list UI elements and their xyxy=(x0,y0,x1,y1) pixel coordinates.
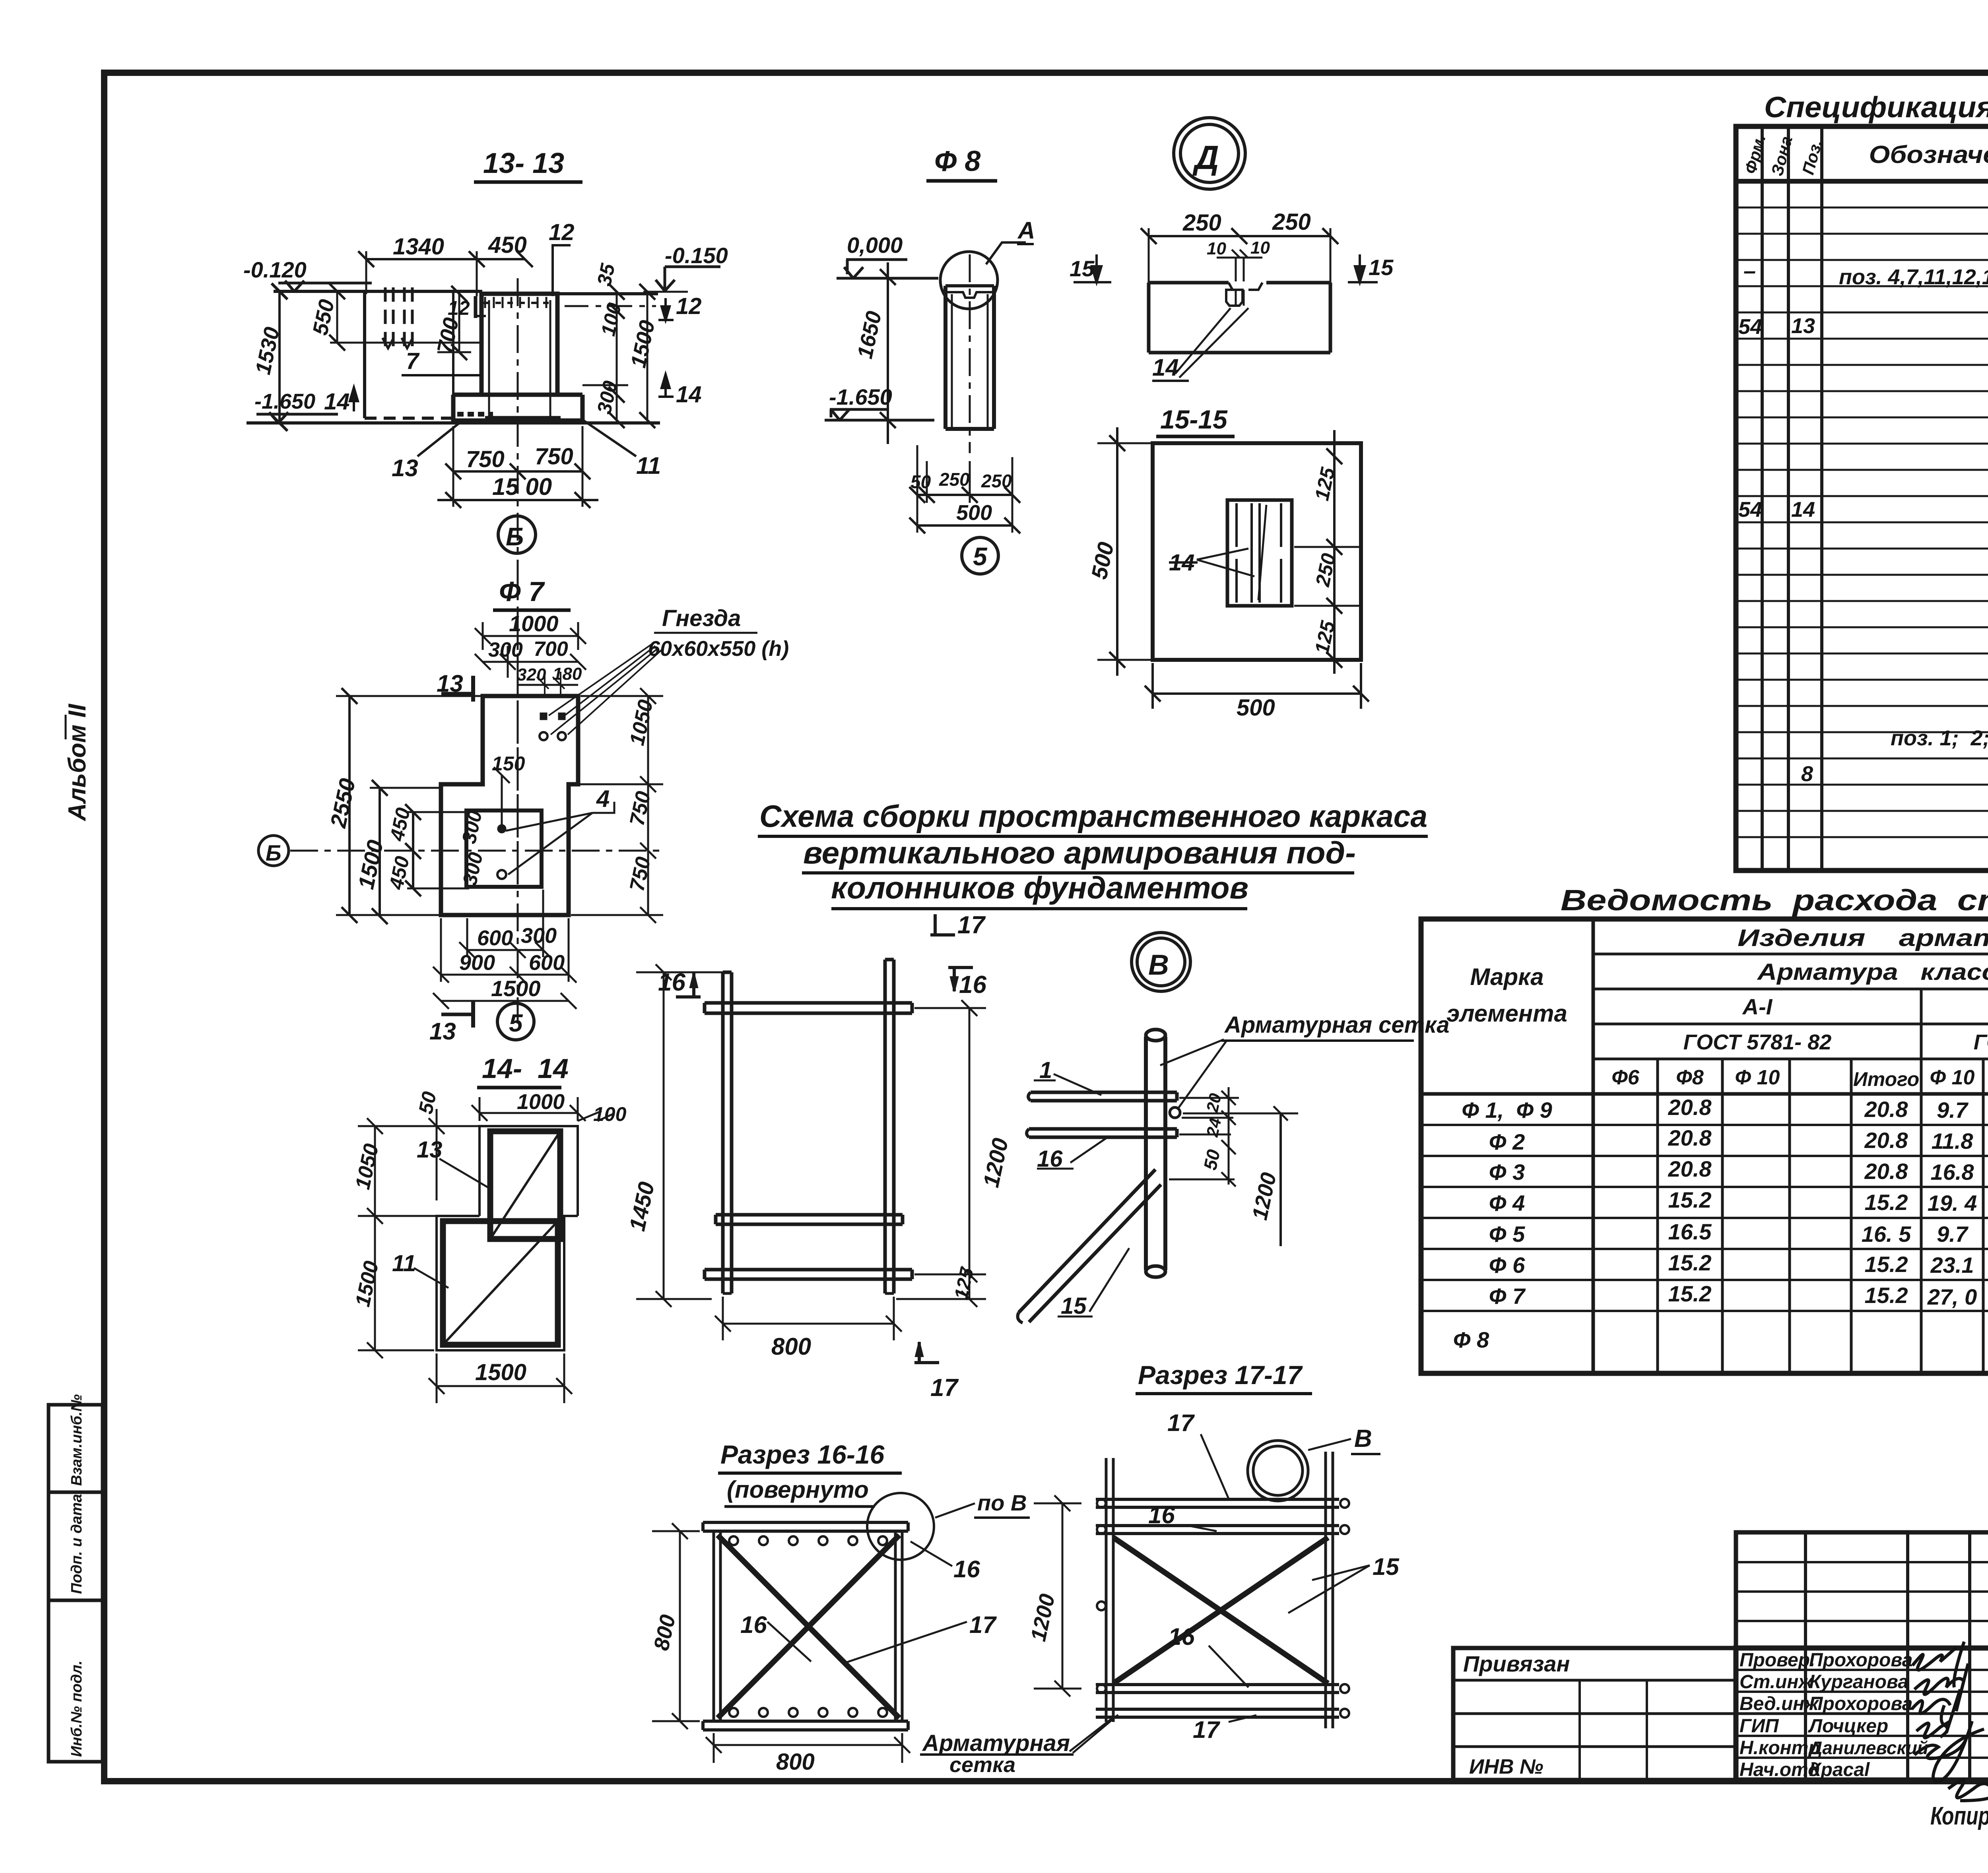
svg-text:16: 16 xyxy=(959,971,986,999)
horizontal rebar 1 xyxy=(1031,1092,1177,1101)
svg-text:А: А xyxy=(1017,217,1035,244)
svg-text:Арматура класса: Арматура класса xyxy=(1757,959,1988,985)
svg-text:поз. 4,7,11,12,15,16,17 см. Ф7: поз. 4,7,11,12,15,16,17 см. Ф7 xyxy=(1839,265,1988,289)
vertical rebar xyxy=(1146,1037,1165,1270)
inner pocket xyxy=(466,810,542,887)
top dim line 1340/450 xyxy=(366,258,525,260)
svg-text:16: 16 xyxy=(953,1556,980,1582)
svg-text:54: 54 xyxy=(1738,315,1762,339)
leaders 1 / 16 / 15 xyxy=(1054,1074,1129,1312)
svg-text:–: – xyxy=(1743,258,1756,283)
elevation mark -0.120 xyxy=(278,281,372,291)
svg-text:17: 17 xyxy=(930,1374,959,1402)
-0.150 elevation xyxy=(656,267,720,291)
svg-text:Разрез 16-16: Разрез 16-16 xyxy=(720,1440,885,1469)
svg-text:16: 16 xyxy=(1148,1502,1175,1528)
left margin stamp strip xyxy=(49,1405,103,1762)
svg-text:Гнезда: Гнезда xyxy=(662,605,741,631)
svg-text:Ф 10: Ф 10 xyxy=(1930,1066,1975,1089)
bottom dim 800 xyxy=(723,1323,894,1325)
svg-text:20.8: 20.8 xyxy=(1864,1128,1908,1153)
svg-text:Ф8: Ф8 xyxy=(1676,1066,1704,1089)
vertical side bars xyxy=(1106,1458,1113,1722)
svg-text:50: 50 xyxy=(911,471,931,492)
svg-text:12: 12 xyxy=(448,297,470,319)
svg-text:17: 17 xyxy=(969,1611,997,1638)
svg-text:16: 16 xyxy=(1037,1146,1063,1172)
svg-text:13: 13 xyxy=(429,1018,456,1045)
po V circle xyxy=(867,1493,934,1560)
diagonal rebar xyxy=(1019,1169,1161,1322)
svg-text:1200: 1200 xyxy=(1248,1171,1281,1222)
svg-text:Прохорова: Прохорова xyxy=(1809,1650,1912,1671)
svg-text:15: 15 xyxy=(1373,1553,1400,1580)
top anchor notch xyxy=(945,292,994,298)
node B circle xyxy=(1132,933,1190,991)
svg-text:750: 750 xyxy=(625,855,655,893)
svg-text:9.7: 9.7 xyxy=(1937,1097,1969,1123)
axis xyxy=(969,254,971,453)
svg-text:Ф 2: Ф 2 xyxy=(1489,1129,1525,1154)
svg-text:5: 5 xyxy=(509,1010,523,1037)
svg-text:900: 900 xyxy=(459,951,495,975)
svg-text:ГОСТ 5781- 82: ГОСТ 5781- 82 xyxy=(1974,1030,1988,1054)
svg-text:27, 0: 27, 0 xyxy=(1927,1284,1977,1309)
bottom dims 750 750 xyxy=(453,470,582,473)
svg-text:15: 15 xyxy=(1061,1293,1087,1319)
svg-text:450: 450 xyxy=(386,806,414,843)
middle rung xyxy=(716,1215,903,1224)
X diagonals xyxy=(1113,1538,1328,1683)
svg-text:1500: 1500 xyxy=(491,976,541,1001)
svg-text:180: 180 xyxy=(553,664,582,684)
svg-text:Ведомость расхода стали на: Ведомость расхода стали на элемент, кг. xyxy=(1561,884,1988,917)
svg-text:10: 10 xyxy=(1207,239,1226,258)
vertical lines xyxy=(1592,919,1595,1373)
svg-text:13: 13 xyxy=(392,455,418,481)
svg-text:вертикального армирования под-: вертикального армирования под- xyxy=(803,835,1356,870)
bottom dim 500 xyxy=(1153,692,1361,695)
markers 17/16 top-right xyxy=(930,914,955,935)
leader 11 xyxy=(584,421,636,456)
svg-text:1000: 1000 xyxy=(509,611,559,636)
lower thick box xyxy=(443,1221,558,1345)
svg-text:-0.120: -0.120 xyxy=(243,257,307,282)
svg-text:элемента: элемента xyxy=(1446,1000,1567,1027)
top dims xyxy=(483,635,578,637)
svg-text:14: 14 xyxy=(324,389,350,415)
bottom plate xyxy=(703,1721,908,1730)
dim 150 with dot xyxy=(501,775,503,829)
svg-text:50: 50 xyxy=(414,1090,441,1116)
svg-text:100: 100 xyxy=(593,1103,627,1125)
svg-text:ГОСТ 5781- 82: ГОСТ 5781- 82 xyxy=(1683,1030,1832,1054)
right dim chain xyxy=(1333,430,1336,674)
svg-text:Изделия арматурные: Изделия арматурные xyxy=(1738,925,1988,951)
svg-text:1050: 1050 xyxy=(625,698,658,747)
svg-text:Привязан: Привязан xyxy=(1463,1651,1570,1676)
svg-text:Фрм.: Фрм. xyxy=(1741,132,1769,176)
svg-text:15.2: 15.2 xyxy=(1865,1283,1908,1308)
top rung xyxy=(705,1003,912,1013)
outer slab square xyxy=(1153,443,1361,660)
left dim 500 xyxy=(1116,443,1118,660)
circle B left + circle 5 bottom xyxy=(258,836,289,866)
svg-text:800: 800 xyxy=(771,1333,811,1360)
svg-text:Подп. и дата: Подп. и дата xyxy=(68,1494,85,1594)
svg-text:300: 300 xyxy=(488,638,523,661)
svg-text:300: 300 xyxy=(521,924,557,948)
svg-text:700: 700 xyxy=(534,638,568,661)
side bars xyxy=(714,1531,720,1721)
bottom rung xyxy=(705,1270,912,1279)
svg-text:14: 14 xyxy=(676,382,702,407)
svg-text:15.2: 15.2 xyxy=(1865,1252,1908,1277)
leaders 13 / 11 xyxy=(414,1159,490,1288)
svg-text:12: 12 xyxy=(676,293,702,319)
svg-text:В: В xyxy=(1354,1425,1372,1452)
svg-text:20.8: 20.8 xyxy=(1864,1097,1908,1122)
svg-text:Арматурная: Арматурная xyxy=(922,1730,1070,1756)
svg-text:800: 800 xyxy=(649,1613,680,1653)
svg-text:14: 14 xyxy=(1169,550,1195,576)
vertical bars xyxy=(723,972,732,1293)
svg-text:1500: 1500 xyxy=(626,318,660,370)
svg-text:11: 11 xyxy=(392,1251,416,1276)
svg-text:16.5: 16.5 xyxy=(1668,1219,1712,1244)
column body xyxy=(944,286,947,429)
circle A detail xyxy=(940,252,998,309)
circle B axis xyxy=(498,516,536,553)
svg-text:Ф 7: Ф 7 xyxy=(1489,1284,1526,1309)
svg-text:500: 500 xyxy=(1237,695,1275,721)
svg-text:35: 35 xyxy=(593,261,619,288)
marker 17 bottom xyxy=(914,1342,939,1363)
svg-text:Ф 5: Ф 5 xyxy=(1489,1222,1525,1247)
left dims xyxy=(374,1126,376,1350)
svg-text:ГИП: ГИП xyxy=(1739,1716,1779,1737)
15 arrows xyxy=(1074,254,1111,282)
dim 10 10 xyxy=(1217,257,1262,259)
svg-text:300: 300 xyxy=(458,809,486,845)
center axis xyxy=(517,278,519,867)
svg-text:1000: 1000 xyxy=(517,1090,565,1114)
setka leader xyxy=(1070,1715,1118,1753)
svg-text:15: 15 xyxy=(1369,255,1394,280)
0.000 level xyxy=(837,260,938,278)
svg-text:20.8: 20.8 xyxy=(1668,1125,1712,1150)
dim 250 250 xyxy=(1149,235,1330,237)
spec table grid xyxy=(1736,126,1988,871)
-1.650 level xyxy=(825,409,934,420)
svg-text:Курганова: Курганова xyxy=(1809,1671,1908,1693)
signatures scribbles xyxy=(1912,1642,1988,1801)
svg-text:13: 13 xyxy=(417,1137,443,1163)
svg-text:0,000: 0,000 xyxy=(847,233,903,258)
svg-text:15: 15 xyxy=(1070,256,1095,281)
setka leaders xyxy=(1160,1039,1227,1109)
svg-text:600: 600 xyxy=(477,926,513,950)
data row lines xyxy=(1421,1124,1988,1126)
svg-text:Б: Б xyxy=(266,840,282,865)
svg-text:поз. 1; 2; 4: поз. 1; 2; 4 xyxy=(1891,726,1988,750)
svg-text:ИНВ №: ИНВ № xyxy=(1469,1755,1543,1778)
svg-text:Ф 1, Ф 9: Ф 1, Ф 9 xyxy=(1462,1097,1552,1123)
wire loop circle xyxy=(1170,1107,1180,1118)
svg-text:2550: 2550 xyxy=(325,776,360,830)
vertical dim 1530 xyxy=(278,291,281,423)
svg-text:8: 8 xyxy=(1801,762,1813,786)
svg-text:Ф 8: Ф 8 xyxy=(934,145,980,177)
svg-text:20.8: 20.8 xyxy=(1668,1156,1712,1181)
pier body xyxy=(481,294,557,395)
svg-text:750: 750 xyxy=(625,789,655,828)
horizontal double bars bottom xyxy=(1096,1685,1339,1693)
svg-text:Ф 7: Ф 7 xyxy=(499,576,545,607)
dim 550 xyxy=(336,291,338,343)
horizontal header lines xyxy=(1593,953,1988,956)
svg-text:1500: 1500 xyxy=(475,1359,526,1385)
svg-text:1200: 1200 xyxy=(1026,1592,1060,1644)
svg-text:14: 14 xyxy=(1152,354,1179,381)
upper revision grid xyxy=(1736,1532,1988,1648)
svg-text:Красаl: Красаl xyxy=(1809,1759,1870,1780)
svg-text:15.2: 15.2 xyxy=(1865,1190,1908,1215)
svg-text:Ф 10: Ф 10 xyxy=(1735,1066,1780,1089)
svg-text:Арматурная сетка: Арматурная сетка xyxy=(1224,1012,1450,1038)
horizontal double bars top xyxy=(1096,1499,1339,1507)
bottom dim 800 xyxy=(714,1744,902,1746)
marker 13 bottom xyxy=(441,1013,471,1016)
axes dash-dot xyxy=(517,622,519,1024)
pier inner bars xyxy=(488,300,490,417)
excavation outline xyxy=(363,291,366,418)
svg-text:23.1: 23.1 xyxy=(1930,1253,1974,1278)
svg-text:15 00: 15 00 xyxy=(492,473,552,500)
node D circle xyxy=(1174,118,1245,189)
svg-text:550: 550 xyxy=(308,297,339,337)
svg-text:500: 500 xyxy=(956,501,992,525)
svg-text:14: 14 xyxy=(1791,498,1815,522)
bottom dim 1500 xyxy=(437,499,598,501)
svg-text:А-I: А-I xyxy=(1742,994,1773,1019)
dim 1200 xyxy=(1279,1113,1282,1246)
bottom dim 1500 xyxy=(437,1385,564,1387)
svg-text:15-15: 15-15 xyxy=(1160,405,1228,434)
dim 700 xyxy=(458,294,460,352)
circles row top xyxy=(729,1536,887,1717)
svg-text:60x60x550 (h): 60x60x550 (h) xyxy=(648,637,789,661)
svg-text:17: 17 xyxy=(1167,1410,1195,1436)
svg-text:11: 11 xyxy=(636,452,661,479)
svg-text:750: 750 xyxy=(535,444,573,469)
svg-text:-0.150: -0.150 xyxy=(665,243,728,268)
svg-text:В: В xyxy=(1148,949,1169,981)
bottom dims xyxy=(917,494,1012,496)
svg-text:11.8: 11.8 xyxy=(1932,1128,1974,1154)
svg-text:20.8: 20.8 xyxy=(1864,1159,1908,1184)
svg-text:16. 5: 16. 5 xyxy=(1862,1222,1911,1247)
svg-text:1500: 1500 xyxy=(353,838,388,892)
svg-text:Марка: Марка xyxy=(1470,964,1543,990)
svg-text:16: 16 xyxy=(740,1611,767,1638)
svg-text:сетка: сетка xyxy=(949,1753,1015,1777)
svg-text:Альбом II: Альбом II xyxy=(64,703,91,822)
marker 13 left top xyxy=(441,692,471,696)
svg-text:1450: 1450 xyxy=(624,1180,659,1233)
svg-text:-1.650: -1.650 xyxy=(254,390,315,413)
4 leaders xyxy=(506,802,614,874)
bottom dims xyxy=(467,949,543,951)
left dims xyxy=(348,696,351,915)
svg-text:250: 250 xyxy=(1182,210,1221,236)
svg-text:колонников фундаментов: колонников фундаментов xyxy=(831,870,1248,905)
svg-text:16.8: 16.8 xyxy=(1931,1159,1974,1185)
svg-text:54: 54 xyxy=(1738,498,1762,522)
svg-text:Схема сборки пространственного: Схема сборки пространственного каркаса xyxy=(759,799,1427,834)
svg-text:24: 24 xyxy=(1203,1116,1225,1138)
rebar mesh top of pier xyxy=(483,302,555,304)
svg-text:13: 13 xyxy=(1791,314,1815,338)
gnezda leaders xyxy=(549,644,662,735)
svg-text:10: 10 xyxy=(1250,238,1270,258)
dashed future bars xyxy=(385,287,393,346)
svg-text:500: 500 xyxy=(1086,540,1118,581)
svg-text:Итого: Итого xyxy=(1853,1068,1919,1090)
gnezda sockets xyxy=(540,713,547,720)
svg-text:(повернуто: (повернуто xyxy=(727,1476,869,1503)
svg-text:Ф 8: Ф 8 xyxy=(1453,1327,1489,1352)
marker 12 left (flag) xyxy=(474,296,478,318)
svg-text:4: 4 xyxy=(596,785,610,812)
X diagonals xyxy=(718,1535,899,1718)
svg-text:Н.контр: Н.контр xyxy=(1739,1737,1820,1759)
svg-text:Ст.инж: Ст.инж xyxy=(1739,1671,1813,1693)
vertical dim 1650 xyxy=(887,277,889,420)
svg-text:1050: 1050 xyxy=(351,1142,383,1191)
svg-text:750: 750 xyxy=(466,446,505,472)
central sign rows xyxy=(1736,1669,1988,1671)
svg-text:7: 7 xyxy=(406,348,420,374)
svg-text:5: 5 xyxy=(973,542,988,571)
bar feet xyxy=(723,1292,894,1295)
svg-text:250: 250 xyxy=(981,471,1012,491)
svg-text:-1.650: -1.650 xyxy=(829,384,892,409)
svg-text:1650: 1650 xyxy=(853,309,886,361)
leaders xyxy=(1188,1434,1370,1722)
svg-text:15.2: 15.2 xyxy=(1668,1187,1712,1212)
B circle xyxy=(1248,1441,1308,1501)
svg-text:Инб.№ подл.: Инб.№ подл. xyxy=(68,1660,85,1757)
footing xyxy=(453,395,582,423)
svg-text:Нач.отд: Нач.отд xyxy=(1739,1759,1820,1780)
horizontal rebar 2 xyxy=(1029,1129,1177,1137)
data rows xyxy=(1453,1095,1988,1364)
svg-text:14- 14: 14- 14 xyxy=(482,1053,569,1084)
dash line right of pier xyxy=(565,305,656,307)
svg-text:1500: 1500 xyxy=(351,1259,383,1309)
svg-text:Прохорова: Прохорова xyxy=(1809,1693,1912,1714)
svg-text:250: 250 xyxy=(1311,551,1340,589)
svg-text:17: 17 xyxy=(957,911,986,939)
svg-text:Спецификация к монолитным ф: Спецификация к монолитным фундаментам xyxy=(1764,91,1988,124)
svg-text:16: 16 xyxy=(1168,1623,1195,1650)
marker 16 top-left xyxy=(676,973,701,997)
circle 5 axis xyxy=(962,537,998,574)
svg-text:Провер.: Провер. xyxy=(1739,1650,1815,1671)
right vertical dims xyxy=(616,292,618,420)
outer thin outline upper xyxy=(480,1126,578,1216)
svg-text:600: 600 xyxy=(529,951,565,975)
svg-text:Зона: Зона xyxy=(1767,134,1796,178)
left attach block rows xyxy=(1453,1679,1736,1682)
svg-text:по В: по В xyxy=(977,1490,1027,1515)
svg-text:Ф 3: Ф 3 xyxy=(1489,1159,1525,1185)
svg-text:13: 13 xyxy=(437,670,463,697)
top plate xyxy=(703,1522,908,1531)
svg-text:9.7: 9.7 xyxy=(1937,1222,1969,1247)
upper thick box xyxy=(490,1131,560,1239)
inner anchor box xyxy=(1227,500,1292,606)
svg-text:12: 12 xyxy=(549,219,575,245)
svg-text:1200: 1200 xyxy=(978,1136,1013,1190)
svg-text:250: 250 xyxy=(1272,209,1311,235)
svg-text:300: 300 xyxy=(458,850,487,887)
svg-text:150: 150 xyxy=(492,752,525,775)
dim 50 xyxy=(1169,1145,1236,1187)
svg-text:16: 16 xyxy=(658,969,685,996)
svg-text:1: 1 xyxy=(1039,1057,1052,1083)
svg-text:450: 450 xyxy=(488,232,527,258)
svg-text:320: 320 xyxy=(517,665,546,684)
svg-text:250: 250 xyxy=(939,469,970,490)
svg-text:50: 50 xyxy=(1200,1148,1224,1172)
14 leaders xyxy=(1197,549,1254,576)
svg-text:17: 17 xyxy=(1193,1716,1220,1743)
bottom ground line xyxy=(247,421,660,425)
left margin: album label xyxy=(64,703,91,822)
svg-text:Д: Д xyxy=(1192,139,1219,176)
svg-text:Б: Б xyxy=(506,522,524,551)
slab with anchor xyxy=(1149,283,1330,353)
ground line top xyxy=(274,290,482,293)
svg-text:1340: 1340 xyxy=(393,234,444,260)
svg-text:Копировал: Антипова: Копировал: Антипова xyxy=(1930,1801,1988,1830)
left dim 1200 xyxy=(1062,1503,1064,1689)
label 12 leader xyxy=(553,245,571,296)
svg-text:Ф 4: Ф 4 xyxy=(1489,1190,1525,1216)
leaders xyxy=(767,1541,967,1664)
svg-text:Лочцкер: Лочцкер xyxy=(1808,1716,1888,1737)
small circles xyxy=(1097,1499,1349,1718)
svg-text:20: 20 xyxy=(1203,1092,1225,1114)
svg-text:13- 13: 13- 13 xyxy=(483,147,564,179)
top dim 1000 / 50 / 100 xyxy=(480,1112,578,1114)
A leader xyxy=(986,242,1026,264)
lower outer thin xyxy=(437,1216,578,1350)
bottom mesh marks xyxy=(457,412,493,417)
dims 20 20 xyxy=(1228,1087,1230,1145)
elevation mark -1.650 left xyxy=(256,412,338,423)
right dim 1200 + 125 xyxy=(969,1008,971,1299)
svg-text:125: 125 xyxy=(951,1266,978,1302)
svg-text:19. 4: 19. 4 xyxy=(1928,1190,1977,1216)
svg-text:Ф 6: Ф 6 xyxy=(1489,1253,1525,1278)
leader 13 xyxy=(417,421,462,456)
plan outline xyxy=(441,696,578,915)
svg-text:15.2: 15.2 xyxy=(1668,1281,1712,1306)
svg-text:15.2: 15.2 xyxy=(1668,1250,1712,1275)
